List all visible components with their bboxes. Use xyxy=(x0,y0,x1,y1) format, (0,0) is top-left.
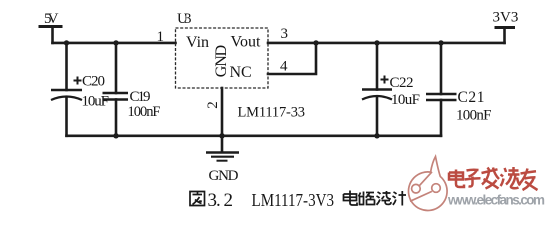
watermark logo circle xyxy=(408,157,447,211)
svg-text:www.elecfans.com: www.elecfans.com xyxy=(447,193,545,208)
svg-text:3. 2: 3. 2 xyxy=(208,190,234,211)
svg-text:Vin: Vin xyxy=(186,34,209,51)
wire C20 top lead xyxy=(65,43,68,90)
junction dot D (C22 top) xyxy=(374,40,379,45)
svg-text:LM1117-33: LM1117-33 xyxy=(238,105,306,121)
wire 3V3 stub xyxy=(503,28,506,43)
capacitor C22 plus sign xyxy=(381,76,389,84)
wire input rail to pin 1 xyxy=(53,42,176,45)
capacitor C20 plus sign xyxy=(74,77,82,85)
svg-text:C19: C19 xyxy=(130,89,151,105)
wire C21 top lead xyxy=(440,43,443,94)
wire C20 bottom lead xyxy=(65,98,68,136)
svg-text:100nF: 100nF xyxy=(456,108,492,124)
svg-text:GND: GND xyxy=(209,168,239,184)
wire C22 top lead xyxy=(376,43,379,90)
caption chinese 电路设计 xyxy=(344,191,407,206)
svg-text:4: 4 xyxy=(280,59,288,75)
wire C19 top lead xyxy=(115,43,118,93)
svg-text:2: 2 xyxy=(205,101,221,109)
wire 5V stub xyxy=(51,27,54,43)
svg-text:3: 3 xyxy=(281,26,289,42)
caption figure number 图 3.2 xyxy=(190,192,205,206)
svg-text:C21: C21 xyxy=(458,89,485,106)
wire C22 bottom lead xyxy=(376,98,379,136)
watermark text 电子发烧友 (red) xyxy=(449,167,538,190)
wire U3 GND pin 2 xyxy=(221,88,224,136)
wire ground stub xyxy=(221,136,224,151)
junction dot A (5V / C20) xyxy=(64,40,69,45)
capacitor C20 plates xyxy=(51,89,82,92)
junction dot B (C19 top) xyxy=(113,40,118,45)
svg-text:NC: NC xyxy=(230,64,252,81)
junction dot H (C22 bottom) xyxy=(374,133,379,138)
svg-text:1: 1 xyxy=(157,29,165,45)
svg-text:C20: C20 xyxy=(82,74,105,90)
wire pin 4 NC branch xyxy=(268,43,316,74)
ground symbol xyxy=(206,153,239,161)
capacitor C21 plates xyxy=(426,94,457,100)
svg-text:10uF: 10uF xyxy=(82,94,110,110)
svg-text:100nF: 100nF xyxy=(128,104,161,120)
svg-text:3V3: 3V3 xyxy=(493,10,519,26)
svg-text:LM1117-3V3: LM1117-3V3 xyxy=(252,190,335,210)
power symbol 5V bar xyxy=(40,25,61,28)
capacitor C22 plates xyxy=(362,88,392,91)
op-amp U3 box (LM1117-33 regulator) xyxy=(176,28,269,88)
svg-text:GND: GND xyxy=(213,45,230,78)
wire output rail pin 3 to 3V3 xyxy=(268,42,505,45)
wire C19 bottom lead xyxy=(115,100,118,136)
wire C21 bottom lead xyxy=(440,100,443,136)
svg-text:5V: 5V xyxy=(44,11,59,27)
power symbol 3V3 bar xyxy=(496,26,514,29)
junction dot C (pin4 riser) xyxy=(313,40,318,45)
capacitor C19 plates xyxy=(103,93,129,100)
svg-text:Vout: Vout xyxy=(231,34,261,51)
svg-text:10uF: 10uF xyxy=(391,92,420,108)
junction dot F (C19 bottom) xyxy=(113,133,118,138)
junction dot E (C21 top) xyxy=(438,40,443,45)
wire ground rail xyxy=(67,135,442,138)
junction dot G (GND pin bottom) xyxy=(219,133,224,138)
svg-text:U3: U3 xyxy=(177,11,192,27)
svg-text:C22: C22 xyxy=(390,75,414,91)
